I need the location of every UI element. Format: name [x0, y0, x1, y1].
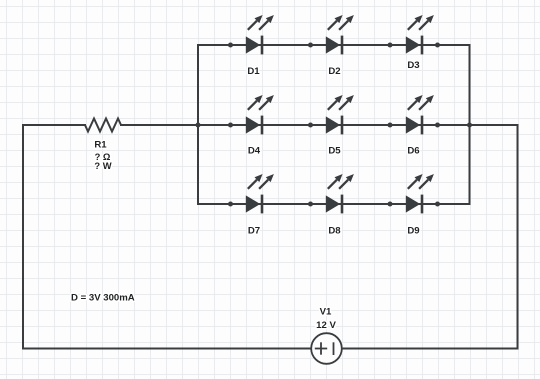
junction middle row x437.5	[435, 123, 440, 128]
svg-text:D9: D9	[407, 225, 419, 236]
wire middle row	[121, 124, 518, 126]
LED D5	[326, 95, 354, 134]
svg-text:D1: D1	[247, 66, 260, 77]
svg-text:D8: D8	[328, 225, 341, 236]
junction top row x230.5	[228, 43, 233, 48]
junction middle row x310.5	[308, 123, 313, 128]
svg-text:12 V: 12 V	[316, 320, 336, 331]
LED D6	[406, 95, 434, 134]
LED D1	[246, 15, 274, 54]
svg-text:R1: R1	[94, 140, 107, 151]
svg-text:D6: D6	[407, 145, 419, 156]
voltage source V1	[311, 333, 342, 364]
junction top row x437.5	[435, 43, 440, 48]
junction bottom row x310.5	[308, 202, 313, 207]
wire bottom row	[198, 203, 470, 205]
wire left loop	[23, 125, 311, 349]
junction bottom row x390	[388, 202, 393, 207]
junction bottom row x437.5	[435, 202, 440, 207]
svg-text:D4: D4	[248, 145, 261, 156]
junction top row x390	[388, 43, 393, 48]
svg-text:D2: D2	[328, 66, 340, 77]
junction middle row x390	[388, 123, 393, 128]
LED D2	[326, 15, 354, 54]
wire top row	[198, 44, 470, 46]
svg-text:D3: D3	[407, 60, 419, 71]
junction right bus / main wire	[467, 123, 472, 128]
resistor R1	[85, 119, 121, 132]
LED D9	[406, 174, 434, 213]
svg-text:D = 3V 300mA: D = 3V 300mA	[71, 292, 135, 303]
wire right loop	[342, 125, 518, 349]
junction top row x310.5	[308, 43, 313, 48]
svg-text:V1: V1	[320, 306, 332, 317]
junction left bus / main wire	[196, 123, 201, 128]
junction middle row x230.5	[228, 123, 233, 128]
junction bottom row x230.5	[228, 202, 233, 207]
LED D3	[406, 15, 434, 54]
wire right bus	[469, 45, 471, 204]
svg-text:D7: D7	[248, 225, 260, 236]
svg-text:D5: D5	[328, 145, 341, 156]
svg-text:? W: ? W	[94, 160, 111, 171]
LED D7	[246, 174, 274, 213]
wire left bus	[197, 45, 199, 204]
LED D8	[326, 174, 354, 213]
LED D4	[246, 95, 274, 134]
